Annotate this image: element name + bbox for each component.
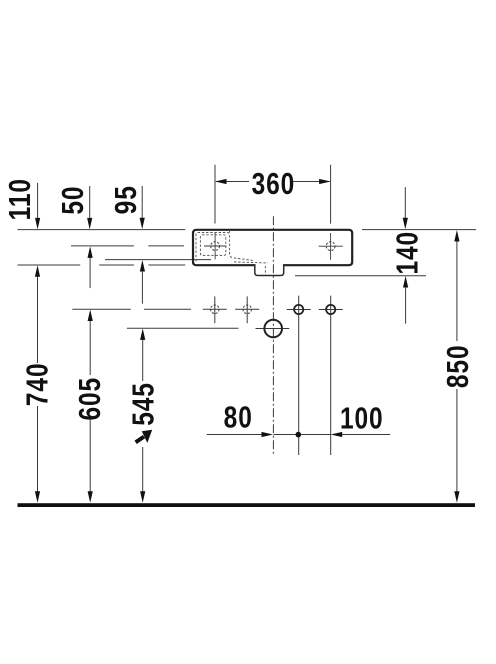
svg-text:95: 95 bbox=[109, 185, 143, 214]
svg-text:80: 80 bbox=[224, 400, 253, 434]
svg-text:740: 740 bbox=[20, 363, 54, 407]
svg-text:850: 850 bbox=[440, 345, 474, 389]
svg-text:110: 110 bbox=[2, 178, 36, 220]
svg-text:50: 50 bbox=[56, 186, 90, 215]
svg-text:545: 545 bbox=[126, 382, 160, 426]
svg-text:140: 140 bbox=[390, 231, 424, 275]
svg-text:360: 360 bbox=[252, 166, 296, 200]
svg-text:605: 605 bbox=[72, 377, 106, 421]
svg-text:100: 100 bbox=[340, 401, 384, 435]
